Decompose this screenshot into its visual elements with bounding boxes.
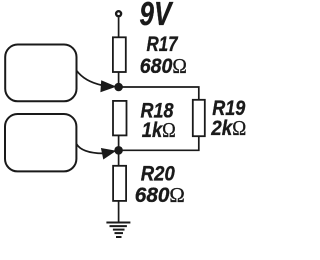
wire R20 to ground bbox=[118, 201, 120, 222]
wire node B to R19 bottom bbox=[119, 136, 199, 150]
svg-text:1kΩ: 1kΩ bbox=[142, 118, 176, 142]
resistor R19 bbox=[193, 100, 205, 136]
resistor R20 bbox=[113, 166, 126, 201]
wire node A to R19 top bbox=[119, 87, 199, 100]
node B junction dot bbox=[114, 146, 123, 155]
svg-text:9V: 9V bbox=[139, 0, 173, 32]
wire R17 to node A bbox=[118, 72, 120, 87]
callout arrow 2 bbox=[76, 144, 103, 154]
wire R18 to node B bbox=[118, 135, 120, 150]
svg-text:R20: R20 bbox=[141, 161, 175, 185]
ground bbox=[106, 223, 130, 238]
callout arrow 1 bbox=[77, 71, 103, 86]
resistor R18 bbox=[113, 101, 127, 135]
9V supply terminal bbox=[116, 11, 121, 16]
callout box 2 bbox=[5, 114, 76, 171]
svg-text:680Ω: 680Ω bbox=[140, 54, 187, 78]
svg-text:680Ω: 680Ω bbox=[135, 183, 185, 207]
wire terminal to R17 bbox=[118, 17, 120, 38]
wire node B to R20 bbox=[118, 150, 120, 166]
node A junction dot bbox=[114, 83, 123, 92]
resistor R17 bbox=[113, 37, 126, 72]
callout box 1 bbox=[5, 45, 76, 102]
svg-text:2kΩ: 2kΩ bbox=[210, 116, 246, 140]
svg-text:R17: R17 bbox=[147, 32, 179, 56]
